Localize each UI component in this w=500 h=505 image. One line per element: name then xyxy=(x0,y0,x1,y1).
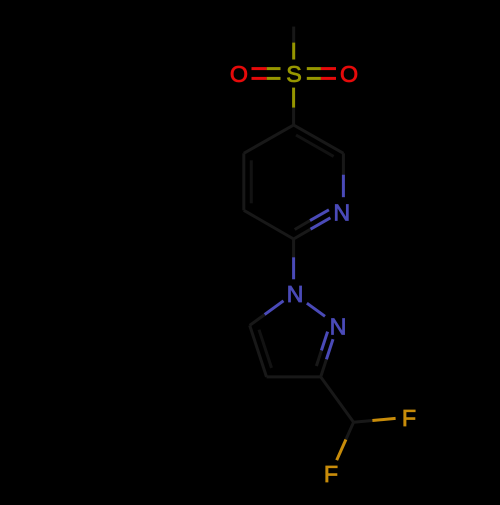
S=O right olive xyxy=(307,67,321,70)
bond S-C5 S part xyxy=(292,88,295,108)
S=O right red xyxy=(321,77,336,80)
bond C5-C6 xyxy=(294,125,344,153)
C3=C4 inner xyxy=(250,160,253,203)
svg-text:O: O xyxy=(230,61,248,87)
bond C2-N1pz blue part xyxy=(292,257,295,279)
bond C4-C3 pz xyxy=(267,375,321,378)
N2=C3 inner gray xyxy=(316,351,321,367)
S=O right olive xyxy=(307,77,321,80)
bond C3-C4 xyxy=(242,153,245,210)
bond C5-C4 pz xyxy=(250,325,267,377)
bond C6-N C part xyxy=(342,153,345,174)
bond N1-C5 pz blue part xyxy=(265,301,284,315)
bond C-Fb C part xyxy=(346,422,354,439)
bond CH3-S S part xyxy=(292,43,295,60)
bond S-C5 C part xyxy=(292,108,295,125)
bond N-C2 blue part xyxy=(311,218,331,229)
bond N2-C3 pz blue part xyxy=(326,339,333,359)
svg-text:F: F xyxy=(324,461,338,487)
N=C2 inner blue xyxy=(310,210,329,221)
bond N2-C3 pz C part xyxy=(321,359,327,377)
svg-text:F: F xyxy=(402,405,416,431)
N=C2 inner gray xyxy=(295,221,310,230)
S=O left red xyxy=(252,67,267,70)
bond C2-N1pz C part xyxy=(292,239,295,257)
svg-text:S: S xyxy=(286,61,302,87)
bond C-Fb gold part xyxy=(337,440,346,461)
bond N1-C5 pz C part xyxy=(250,315,265,326)
bond CH3-S C part xyxy=(292,27,295,43)
S=O left olive xyxy=(267,77,281,80)
svg-text:N: N xyxy=(287,281,304,307)
svg-text:N: N xyxy=(333,200,350,226)
S=O left olive xyxy=(267,67,281,70)
bond N1-N2 pz xyxy=(307,303,325,316)
bond N-C2 C part xyxy=(294,229,311,239)
C5=C6 inner xyxy=(296,135,334,156)
bond C-Fr C part xyxy=(354,421,373,423)
svg-text:N: N xyxy=(330,314,347,340)
bond C6-N blue part xyxy=(342,175,345,198)
S=O right red xyxy=(321,67,336,70)
S=O left red xyxy=(252,77,267,80)
bond C2-C3 xyxy=(244,210,294,239)
bond C3-CHF2 xyxy=(321,377,354,422)
C5=C4 pz inner xyxy=(259,330,272,368)
bond C-Fr gold part xyxy=(372,418,395,420)
bond C4-C5 xyxy=(244,125,294,153)
N2=C3 inner blue xyxy=(321,332,327,351)
svg-text:O: O xyxy=(340,61,358,87)
